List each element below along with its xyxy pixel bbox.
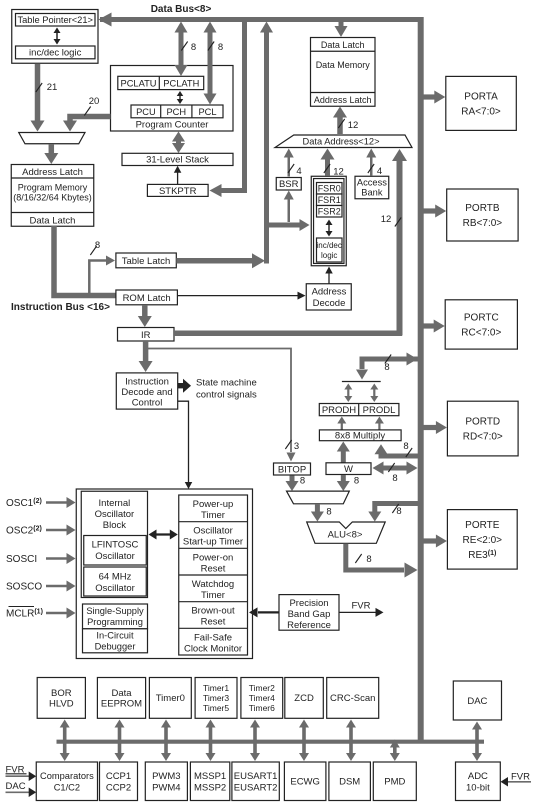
svg-text:(8/16/32/64 Kbytes): (8/16/32/64 Kbytes) — [13, 193, 92, 203]
svg-text:FSR2: FSR2 — [318, 207, 341, 217]
svg-text:Timer6: Timer6 — [249, 703, 275, 713]
svg-text:PORTE: PORTE — [465, 520, 500, 531]
svg-text:Fail-Safe: Fail-Safe — [194, 632, 232, 643]
svg-text:Debugger: Debugger — [95, 642, 136, 652]
svg-text:FVR: FVR — [511, 772, 530, 783]
svg-text:64 MHz: 64 MHz — [99, 572, 132, 583]
svg-text:Timer1: Timer1 — [203, 683, 229, 693]
svg-text:RE<2:0>: RE<2:0> — [463, 535, 503, 546]
svg-text:CCP2: CCP2 — [106, 782, 131, 793]
svg-text:Reference: Reference — [287, 620, 331, 631]
svg-text:Decode: Decode — [313, 298, 346, 309]
svg-text:BITOP: BITOP — [278, 465, 306, 476]
svg-text:Brown-out: Brown-out — [191, 606, 235, 617]
svg-text:31-Level Stack: 31-Level Stack — [146, 155, 209, 166]
svg-text:Timer4: Timer4 — [249, 693, 275, 703]
svg-text:IR: IR — [141, 330, 151, 341]
svg-text:Precision: Precision — [289, 598, 328, 609]
svg-text:Internal: Internal — [99, 498, 131, 509]
svg-text:10-bit: 10-bit — [466, 782, 490, 793]
svg-text:Oscillator: Oscillator — [95, 583, 135, 594]
svg-text:Address Latch: Address Latch — [22, 167, 83, 178]
svg-text:MSSP2: MSSP2 — [194, 782, 226, 793]
svg-text:C1/C2: C1/C2 — [54, 782, 80, 792]
svg-text:PWM4: PWM4 — [152, 782, 181, 793]
svg-text:Start-up Timer: Start-up Timer — [183, 537, 243, 548]
svg-text:PCL: PCL — [198, 107, 216, 117]
svg-text:4: 4 — [377, 166, 382, 177]
svg-text:Reset: Reset — [201, 617, 226, 628]
svg-text:inc/dec logic: inc/dec logic — [29, 48, 82, 59]
svg-text:control signals: control signals — [196, 390, 257, 401]
svg-text:Control: Control — [132, 398, 163, 409]
svg-text:ZCD: ZCD — [294, 693, 314, 704]
svg-text:Table Pointer<21>: Table Pointer<21> — [17, 15, 92, 25]
svg-text:FSR0: FSR0 — [318, 184, 341, 194]
svg-text:EUSART2: EUSART2 — [234, 782, 278, 793]
svg-text:ALU<8>: ALU<8> — [328, 530, 363, 541]
svg-text:PORTB: PORTB — [465, 203, 500, 214]
svg-text:Access: Access — [357, 178, 387, 188]
svg-text:DAC: DAC — [6, 781, 26, 792]
svg-text:ECWG: ECWG — [290, 777, 320, 788]
svg-text:LFINTOSC: LFINTOSC — [92, 540, 139, 551]
svg-text:Block: Block — [103, 520, 126, 531]
svg-text:CRC-Scan: CRC-Scan — [330, 693, 375, 704]
svg-text:Program Memory: Program Memory — [18, 183, 88, 193]
svg-text:20: 20 — [89, 96, 100, 107]
svg-text:Data: Data — [111, 688, 132, 699]
svg-text:Timer5: Timer5 — [203, 703, 229, 713]
svg-text:Watchdog: Watchdog — [192, 579, 234, 590]
svg-text:ADC: ADC — [468, 771, 488, 782]
svg-text:Data Memory: Data Memory — [316, 60, 371, 70]
svg-text:12: 12 — [381, 214, 392, 225]
svg-text:12: 12 — [348, 120, 359, 131]
svg-text:PWM3: PWM3 — [152, 771, 181, 782]
svg-text:Instruction Bus <16>: Instruction Bus <16> — [11, 302, 110, 313]
svg-text:Program Counter: Program Counter — [136, 120, 209, 131]
svg-text:Data Bus<8>: Data Bus<8> — [151, 4, 212, 15]
svg-text:SOSCO: SOSCO — [6, 582, 42, 593]
svg-text:Oscillator: Oscillator — [95, 509, 135, 520]
svg-text:DSM: DSM — [339, 777, 360, 788]
svg-text:BOR: BOR — [51, 688, 72, 699]
svg-text:8: 8 — [95, 240, 100, 251]
svg-text:Timer3: Timer3 — [203, 693, 229, 703]
svg-text:8: 8 — [354, 476, 359, 487]
svg-text:PMD: PMD — [384, 777, 405, 788]
svg-text:Programming: Programming — [87, 617, 143, 627]
svg-text:DAC: DAC — [467, 696, 487, 707]
svg-text:Single-Supply: Single-Supply — [86, 606, 144, 616]
svg-text:Data Address<12>: Data Address<12> — [302, 137, 379, 147]
svg-text:RC<7:0>: RC<7:0> — [461, 327, 501, 338]
svg-text:8: 8 — [392, 473, 397, 484]
svg-text:Data Latch: Data Latch — [30, 216, 76, 227]
svg-text:Reset: Reset — [201, 563, 226, 574]
svg-text:FSR1: FSR1 — [318, 195, 341, 205]
svg-text:Address: Address — [312, 287, 347, 298]
svg-text:Power-on: Power-on — [193, 552, 234, 563]
svg-text:8: 8 — [366, 554, 371, 565]
svg-text:8: 8 — [191, 42, 196, 53]
svg-text:STKPTR: STKPTR — [159, 186, 197, 197]
svg-text:3: 3 — [294, 441, 299, 452]
svg-text:RB<7:0>: RB<7:0> — [463, 218, 503, 229]
svg-text:RA<7:0>: RA<7:0> — [461, 106, 501, 117]
svg-text:8: 8 — [300, 476, 305, 487]
svg-text:PCH: PCH — [166, 107, 186, 117]
svg-text:BSR: BSR — [279, 179, 299, 190]
svg-text:Timer: Timer — [201, 510, 225, 521]
svg-text:8: 8 — [396, 506, 401, 517]
svg-text:CCP1: CCP1 — [106, 771, 131, 782]
svg-text:logic: logic — [321, 251, 337, 260]
svg-text:21: 21 — [47, 82, 58, 93]
svg-text:PORTA: PORTA — [464, 91, 498, 102]
svg-text:inc/dec: inc/dec — [317, 241, 342, 250]
svg-text:Comparators: Comparators — [40, 771, 94, 781]
svg-text:ROM Latch: ROM Latch — [123, 293, 171, 304]
svg-text:8: 8 — [218, 42, 223, 53]
svg-text:State machine: State machine — [196, 378, 257, 389]
svg-text:PRODL: PRODL — [363, 405, 396, 416]
svg-text:HLVD: HLVD — [49, 698, 74, 709]
svg-text:PCLATU: PCLATU — [121, 78, 157, 88]
svg-text:Data Latch: Data Latch — [321, 40, 365, 50]
svg-text:8x8 Multiply: 8x8 Multiply — [335, 431, 385, 442]
svg-text:EEPROM: EEPROM — [101, 698, 142, 709]
svg-text:Band Gap: Band Gap — [288, 609, 331, 620]
svg-text:Timer2: Timer2 — [249, 683, 275, 693]
svg-text:Oscillator: Oscillator — [193, 526, 233, 537]
svg-text:Timer: Timer — [201, 590, 225, 601]
svg-text:Oscillator: Oscillator — [95, 551, 135, 562]
svg-text:Clock Monitor: Clock Monitor — [184, 643, 242, 654]
svg-text:PRODH: PRODH — [322, 405, 356, 416]
svg-text:8: 8 — [326, 507, 331, 518]
svg-text:PCU: PCU — [136, 107, 156, 117]
svg-text:RD<7:0>: RD<7:0> — [463, 432, 503, 443]
svg-text:PCLATH: PCLATH — [163, 78, 199, 88]
svg-text:Table Latch: Table Latch — [122, 256, 171, 267]
svg-text:8: 8 — [403, 441, 408, 452]
svg-text:PORTD: PORTD — [465, 417, 500, 428]
svg-text:MSSP1: MSSP1 — [194, 771, 226, 782]
svg-text:4: 4 — [296, 166, 301, 177]
svg-text:Timer0: Timer0 — [156, 693, 185, 704]
svg-text:Instruction: Instruction — [125, 377, 169, 388]
svg-text:PORTC: PORTC — [464, 312, 499, 323]
svg-text:EUSART1: EUSART1 — [234, 771, 278, 782]
svg-text:In-Circuit: In-Circuit — [96, 631, 134, 641]
svg-text:FVR: FVR — [352, 601, 371, 612]
svg-text:8: 8 — [384, 362, 389, 373]
svg-text:Decode and: Decode and — [121, 387, 172, 398]
svg-text:Bank: Bank — [361, 188, 383, 198]
svg-text:Address Latch: Address Latch — [314, 95, 372, 105]
svg-text:W: W — [344, 464, 353, 475]
svg-text:SOSCI: SOSCI — [6, 554, 37, 565]
svg-text:Power-up: Power-up — [193, 499, 234, 510]
